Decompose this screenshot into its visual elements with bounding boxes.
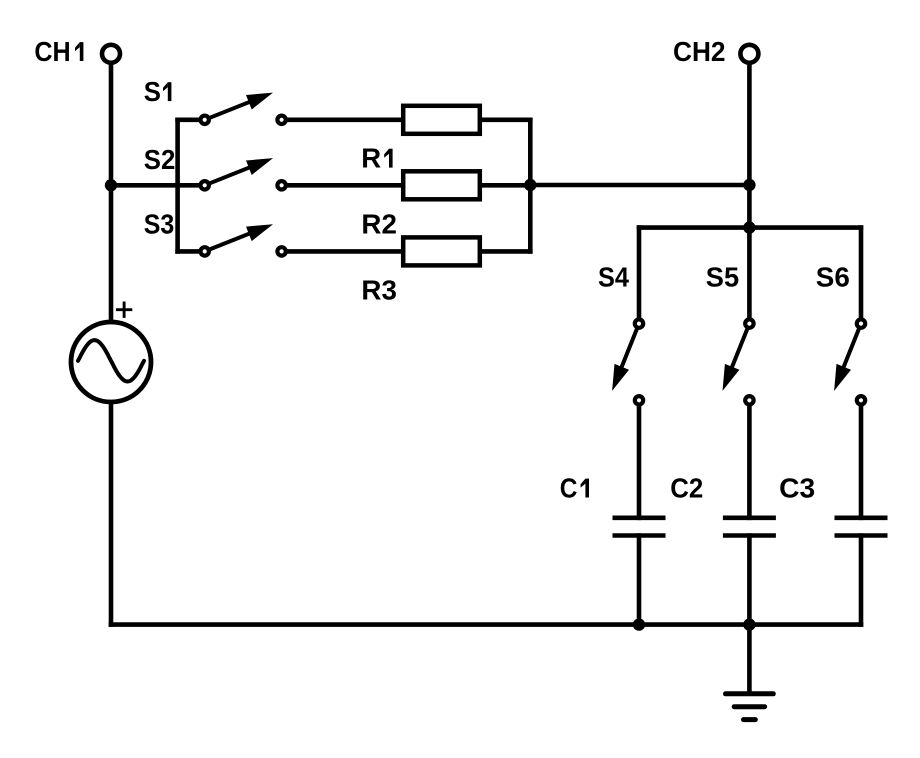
svg-text:S3: S3: [144, 208, 175, 239]
svg-text:R: R: [361, 143, 381, 174]
svg-text:R3: R3: [361, 275, 397, 306]
svg-text:C3: C3: [779, 473, 815, 504]
svg-text:S2: S2: [144, 144, 176, 175]
svg-text:C: C: [560, 473, 578, 504]
svg-text:S6: S6: [816, 262, 850, 293]
svg-text:R2: R2: [361, 208, 397, 239]
svg-text:S4: S4: [598, 262, 630, 293]
svg-text:CH2: CH2: [673, 36, 726, 67]
svg-text:S5: S5: [706, 262, 739, 293]
svg-text:CH: CH: [34, 36, 70, 67]
svg-text:S: S: [144, 76, 161, 107]
svg-text:C2: C2: [670, 473, 703, 504]
